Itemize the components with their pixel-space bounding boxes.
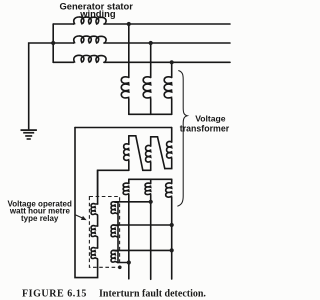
- relay chain bottom link: [97, 259, 99, 267]
- generator stator winding phase 1 coil: [74, 17, 107, 24]
- wire rail V3: [171, 198, 173, 279]
- wire phase line 2: [104, 42, 230, 44]
- wire VT tertiary star bus: [129, 178, 172, 180]
- wire phase line 3 left stub: [53, 61, 73, 63]
- voltage transformer primary coil B: [143, 77, 151, 100]
- wire chain bottom to V1: [118, 262, 129, 264]
- node tap2 on V3: [170, 223, 174, 227]
- wire tap element2 to V3: [114, 224, 172, 226]
- node phase3-VT C: [170, 60, 174, 64]
- generator stator winding phase 2 coil: [74, 36, 107, 43]
- VT tertiary coil C: [171, 179, 173, 183]
- svg-text:winding: winding: [79, 8, 116, 19]
- wire phase line 3: [104, 61, 230, 63]
- node tap1 on V2: [149, 200, 153, 204]
- svg-text:Interturn fault detection.: Interturn fault detection.: [99, 288, 206, 299]
- svg-text:type relay: type relay: [21, 214, 59, 223]
- node tap3 on V3: [170, 248, 174, 252]
- VT secondary (broken delta) coil C: [171, 128, 173, 143]
- wire coil A to star point: [128, 99, 130, 114]
- wire broken-delta bottom bus: [98, 170, 129, 196]
- node relay box corner: [118, 266, 122, 270]
- relay current coil chain line: [117, 202, 119, 263]
- wire tap element1 to V2: [114, 201, 151, 203]
- relay dashed enclosure: [89, 197, 119, 268]
- relay current coil 3: [111, 250, 118, 262]
- relay chain link 1: [97, 215, 99, 226]
- node phase2-VT B: [149, 41, 153, 45]
- wire generator neutral bus: [52, 24, 54, 62]
- node phase1-VT A: [127, 22, 131, 26]
- ground symbol: [21, 129, 37, 140]
- svg-text:FIGURE 6.15: FIGURE 6.15: [22, 288, 87, 299]
- wire VT primary feed B: [150, 43, 152, 77]
- VT secondary (broken delta) coil A: [128, 136, 130, 145]
- wire secondary top link 1: [129, 135, 136, 137]
- wire phase line 2 left stub: [53, 42, 73, 44]
- wire coil B to star point: [150, 99, 152, 114]
- relay chain link 2: [97, 237, 99, 248]
- svg-text:transformer: transformer: [180, 123, 230, 133]
- wire coil C to star point: [171, 99, 173, 114]
- node chain bottom on V1: [127, 260, 131, 264]
- relay voltage coil 2: [91, 226, 98, 237]
- wire secondary diagonal 2: [158, 137, 165, 169]
- wire left vertical to relay: [75, 128, 98, 278]
- wire rail V1: [128, 195, 130, 279]
- wire tap element3 to V3: [114, 249, 172, 251]
- relay voltage coil 3: [91, 248, 98, 259]
- wire VT primary star point bus: [129, 113, 172, 115]
- wire secondary top link 2: [151, 136, 158, 138]
- relay current coil 1: [111, 202, 118, 214]
- wire neutral to earth: [29, 43, 54, 129]
- brace voltage transformer: [177, 71, 187, 207]
- node generator neutral: [51, 41, 55, 45]
- voltage transformer primary coil A: [121, 77, 129, 100]
- relay current coil 2: [111, 225, 118, 237]
- VT tertiary coil A: [128, 179, 130, 183]
- voltage transformer primary coil C: [164, 77, 172, 100]
- relay voltage coil 1: [91, 204, 98, 215]
- wire secondary diagonal 1: [136, 136, 143, 171]
- wire phase line 1: [104, 23, 230, 25]
- svg-text:Voltage: Voltage: [195, 114, 226, 124]
- generator stator winding phase 3 coil: [74, 55, 107, 62]
- wire phase line 1 left stub: [53, 23, 73, 25]
- wire VT primary feed C: [171, 62, 173, 77]
- wire broken-delta top bus: [75, 127, 172, 129]
- wire rail V2: [150, 195, 152, 279]
- VT secondary (broken delta) coil B: [150, 137, 152, 146]
- wire VT primary feed A: [128, 24, 130, 77]
- relay voltage coil chain upper wire: [97, 170, 99, 204]
- VT tertiary coil B: [150, 179, 152, 183]
- arrow relay label pointer: [75, 215, 84, 219]
- wire secondary bottom link 1: [143, 169, 151, 171]
